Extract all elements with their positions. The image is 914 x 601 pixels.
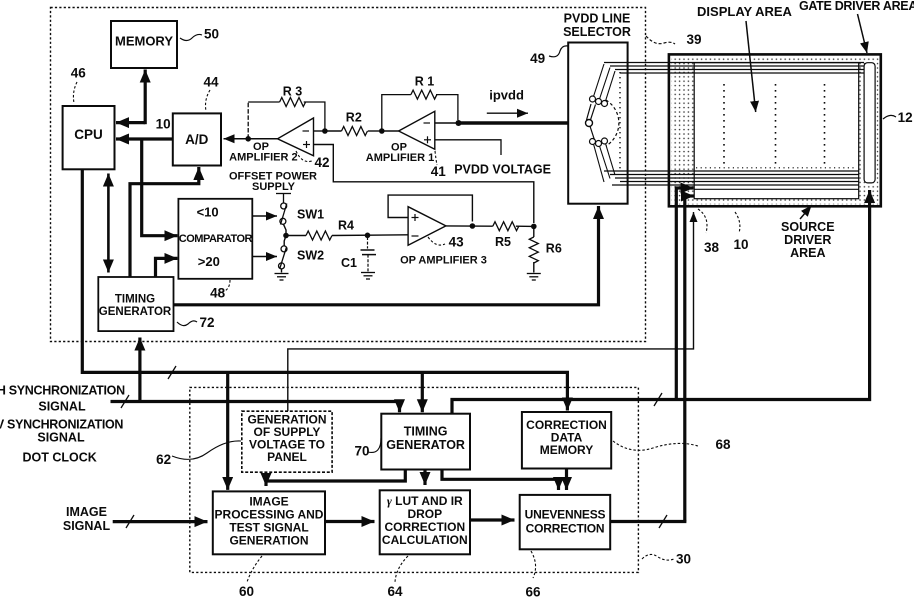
selector arc: [606, 100, 619, 146]
svg-text:30: 30: [676, 552, 691, 567]
svg-text:TEST SIGNAL: TEST SIGNAL: [229, 521, 308, 535]
pvdd line selector box 49: [568, 43, 627, 204]
bus slash: [126, 515, 134, 528]
label 66: [531, 551, 536, 578]
wire R4 to op-amp 3: [332, 234, 408, 237]
svg-text:GENERATOR: GENERATOR: [99, 306, 172, 318]
svg-text:10: 10: [156, 117, 171, 132]
label 44: [206, 90, 211, 111]
label 62: [172, 441, 241, 459]
svg-text:TIMING: TIMING: [404, 425, 448, 439]
gate driver pointer arrow: [858, 14, 868, 53]
wire PVDD sense from op-amp2 + input to R5/R6 node: [314, 145, 534, 224]
svg-text:OP AMPLIFIER 3: OP AMPLIFIER 3: [400, 255, 487, 267]
wire supply-voltage feed to panel (thin): [288, 212, 694, 411]
wire gate-driver feed (timing generator 70 to panel): [452, 190, 870, 414]
wire image processing to gamma LUT: [325, 520, 375, 523]
svg-text:PROCESSING AND: PROCESSING AND: [215, 508, 324, 522]
svg-text:IMAGE: IMAGE: [249, 495, 288, 509]
panel dotted border bands: [671, 57, 878, 63]
gamma LUT correction block 64: [380, 490, 470, 554]
svg-text:CPU: CPU: [74, 127, 103, 142]
selector lever lines: [591, 105, 596, 120]
wire correction data memory to unevenness correction: [565, 469, 568, 491]
svg-text:DOT CLOCK: DOT CLOCK: [23, 451, 97, 465]
label 39: [646, 36, 675, 44]
svg-text:COMPARATOR: COMPARATOR: [179, 233, 253, 245]
svg-text:DISPLAY AREA: DISPLAY AREA: [697, 4, 792, 19]
label 30: [642, 554, 674, 560]
node op-amp2 output: [245, 136, 251, 142]
wire TIMING GENERATOR 72 to A/D: [130, 167, 199, 277]
a/d converter block 44: [173, 113, 221, 165]
svg-text:SIGNAL: SIGNAL: [37, 431, 85, 445]
svg-text:50: 50: [204, 27, 219, 42]
svg-text:SW2: SW2: [297, 249, 324, 263]
svg-text:R 1: R 1: [415, 75, 435, 89]
correction data memory block 68: [522, 412, 611, 469]
svg-text:SW1: SW1: [297, 208, 324, 222]
svg-text:V SYNCHRONIZATION: V SYNCHRONIZATION: [0, 418, 123, 432]
wire comparator to SW2: [252, 256, 277, 258]
svg-text:R5: R5: [495, 235, 511, 249]
svg-text:DRIVER: DRIVER: [784, 233, 831, 247]
resistor R1 feedback: [382, 95, 411, 131]
generation of supply voltage block 62: [242, 411, 332, 472]
resistor R6 (vertical): [533, 226, 535, 237]
wire branch down to timing generator 70: [421, 372, 424, 412]
svg-text:R6: R6: [546, 242, 562, 256]
gate driver strip: [864, 63, 875, 183]
wire timing generator 70 to gamma LUT: [423, 470, 426, 486]
wire CPU-TIMING GENERATOR 72 (double arrow): [107, 174, 110, 273]
selector lower contacts: [590, 139, 596, 145]
svg-text:62: 62: [156, 452, 171, 467]
cpu block 46: [63, 106, 115, 169]
svg-text:43: 43: [449, 235, 465, 250]
svg-text:GATE DRIVER AREA: GATE DRIVER AREA: [799, 0, 914, 13]
svg-text:68: 68: [715, 437, 731, 452]
wire gamma LUT to unevenness correction: [470, 518, 515, 521]
label 64: [395, 556, 408, 582]
wire SW1 to node: [284, 224, 287, 235]
svg-text:AMPLIFIER 1: AMPLIFIER 1: [366, 152, 434, 164]
switch SW1: [281, 203, 287, 209]
label 49: [549, 46, 568, 57]
svg-text:TIMING: TIMING: [115, 294, 155, 306]
panel inner frame: [694, 63, 859, 199]
ground below SW2: [275, 274, 289, 281]
svg-text:γ LUT AND IR: γ LUT AND IR: [387, 494, 463, 508]
svg-text:SIGNAL: SIGNAL: [38, 400, 86, 414]
node op-amp3 output: [470, 223, 476, 229]
svg-text:46: 46: [71, 66, 87, 81]
wire SW2 to ground: [281, 269, 283, 273]
svg-text:CORRECTION: CORRECTION: [526, 522, 605, 536]
svg-text:R 3: R 3: [283, 85, 303, 99]
svg-text:10: 10: [733, 237, 748, 252]
resistor R2: [325, 130, 342, 132]
svg-text:41: 41: [431, 164, 447, 179]
bus slash: [659, 515, 667, 528]
op-amp 1 (triangle, output left): [399, 111, 435, 149]
wire timing generator 70 to image processing: [266, 470, 405, 487]
svg-text:48: 48: [210, 286, 226, 301]
svg-text:CALCULATION: CALCULATION: [382, 533, 468, 547]
wire TIMING GENERATOR 72 to COMPARATOR: [156, 258, 178, 277]
svg-text:AMPLIFIER 2: AMPLIFIER 2: [229, 152, 297, 164]
wire comparator to SW1: [252, 215, 277, 217]
wire bundle selector to panel (top): [604, 63, 864, 74]
source driver strip line: [694, 188, 859, 190]
wire CPU down to lower section bus: [82, 169, 567, 410]
svg-text:IMAGE: IMAGE: [66, 505, 107, 519]
wire bundle selector to panel (bottom): [604, 171, 859, 185]
svg-text:A/D: A/D: [185, 132, 209, 147]
label 60: [247, 556, 262, 582]
wire source-driver feed 2 (from unevenness correction): [685, 196, 694, 522]
dashed enclosure 39 (upper subsystem): [51, 8, 646, 342]
svg-text:PVDD VOLTAGE: PVDD VOLTAGE: [454, 163, 551, 177]
selector common contact: [586, 120, 593, 127]
wire TIMING GENERATOR 72 to PVDD LINE SELECTOR: [174, 206, 599, 305]
svg-text:GENERATOR: GENERATOR: [386, 438, 465, 452]
label 48: [218, 280, 230, 293]
node junction: [283, 233, 289, 239]
image processing block 60: [213, 491, 325, 554]
node R5/R6: [531, 224, 537, 230]
wire branch down to image processing: [226, 372, 229, 490]
bus slash: [168, 366, 176, 379]
display area dotted columns: [724, 84, 825, 167]
resistor R3 feedback: [247, 102, 249, 139]
wire unevenness correction output: [610, 520, 686, 523]
svg-text:42: 42: [314, 155, 329, 170]
svg-text:UNEVENNESS: UNEVENNESS: [525, 508, 606, 522]
svg-text:38: 38: [704, 240, 720, 255]
label 46: [73, 82, 77, 103]
node ipvdd line: [456, 120, 462, 126]
svg-text:SELECTOR: SELECTOR: [563, 25, 631, 39]
selector contact risers (upper): [594, 64, 605, 97]
svg-text:72: 72: [199, 315, 214, 330]
switch SW2: [281, 246, 287, 252]
wire op-amp2 output to A/D: [224, 138, 278, 140]
svg-text:CORRECTION: CORRECTION: [384, 520, 465, 534]
op-amp 3 (triangle): [408, 207, 446, 246]
svg-text:>20: >20: [198, 254, 220, 269]
wire H-sync bus to timing generators: [111, 402, 400, 413]
display panel 12 (outer frame): [669, 54, 881, 206]
svg-text:C1: C1: [341, 256, 357, 270]
label 41: [435, 151, 437, 165]
wire source-driver feed 1: [676, 188, 693, 400]
svg-text:SUPPLY: SUPPLY: [252, 181, 296, 193]
label 70: [368, 438, 381, 452]
resistor R5: [493, 222, 519, 231]
wire op-amp1 plus input (PVDD voltage sense): [435, 140, 501, 155]
svg-text:12: 12: [898, 110, 913, 125]
svg-text:66: 66: [525, 585, 541, 600]
svg-text:R4: R4: [338, 219, 354, 233]
wire image signal input: [113, 520, 208, 523]
svg-text:MEMORY: MEMORY: [115, 33, 173, 48]
wire branch up to timing generator 72: [138, 338, 141, 402]
ground below C1: [361, 273, 375, 280]
label 68: [613, 441, 698, 450]
unevenness correction block 66: [520, 495, 611, 549]
node R2 right: [379, 128, 385, 134]
timing generator block 72: [98, 277, 173, 331]
svg-text:GENERATION: GENERATION: [229, 534, 308, 548]
source driver pointer arrow: [800, 206, 812, 220]
svg-text:DROP: DROP: [407, 507, 442, 521]
svg-text:MEMORY: MEMORY: [540, 443, 594, 457]
resistor R4: [286, 235, 306, 237]
svg-text:70: 70: [354, 444, 369, 459]
wire CPU-MEMORY (L with arrows both ends): [116, 121, 145, 124]
wire op-amp1 minus input to output node: [435, 122, 459, 124]
dashed enclosure 30 (lower subsystem): [190, 387, 639, 572]
comparator block 48: [178, 199, 252, 279]
svg-text:H SYNCHRONIZATION: H SYNCHRONIZATION: [0, 384, 125, 398]
svg-text:64: 64: [387, 584, 403, 599]
wire A/D to CPU: [116, 137, 173, 140]
wire op-amp1 output to R2 node: [382, 130, 399, 132]
wire op-amp2 minus input to R2 node: [314, 130, 325, 132]
label 50: [180, 34, 202, 40]
memory block 50: [111, 21, 177, 68]
capacitor C1: [367, 237, 369, 249]
dotted row above bottom bundle: [696, 167, 857, 169]
selector dotted column: [619, 72, 621, 172]
label 38: [698, 209, 707, 233]
wire A/D line tap to COMPARATOR: [142, 139, 178, 236]
wire op-amp3 output: [446, 225, 493, 227]
svg-text:39: 39: [686, 32, 701, 47]
label 10 (panel): [735, 212, 740, 233]
svg-text:60: 60: [239, 584, 254, 599]
svg-text:SOURCE: SOURCE: [781, 220, 834, 234]
label 42: [296, 151, 312, 162]
selector upper contacts: [590, 96, 596, 102]
op-amp 2 (triangle, output left): [278, 118, 314, 156]
svg-text:SIGNAL: SIGNAL: [63, 519, 111, 533]
wire node to SW2: [284, 236, 286, 247]
svg-text:PVDD LINE: PVDD LINE: [564, 12, 631, 26]
svg-text:AREA: AREA: [790, 246, 825, 260]
label 12: [883, 115, 896, 119]
timing generator block 70: [381, 414, 470, 470]
node R2 left: [322, 128, 328, 134]
svg-text:PANEL: PANEL: [267, 450, 307, 464]
display area pointer arrow: [746, 21, 756, 112]
svg-text:ipvdd: ipvdd: [489, 88, 524, 103]
label 72: [177, 321, 197, 326]
svg-text:49: 49: [530, 51, 545, 66]
wire main pvdd line to selector: [459, 121, 569, 124]
selector contact risers (lower): [594, 144, 605, 182]
bus slash: [654, 393, 662, 406]
supply rail symbol: [276, 193, 291, 195]
label 43: [428, 237, 445, 245]
ground below R6: [527, 274, 541, 281]
wire timing generator 70 to unevenness correction: [442, 470, 559, 491]
svg-text:R2: R2: [346, 111, 362, 125]
bus slash: [121, 395, 129, 408]
svg-text:44: 44: [203, 75, 219, 90]
svg-text:<10: <10: [197, 205, 219, 220]
node C1 junction: [365, 233, 371, 239]
op-amp 3 feedback rectangle: [388, 195, 472, 221]
